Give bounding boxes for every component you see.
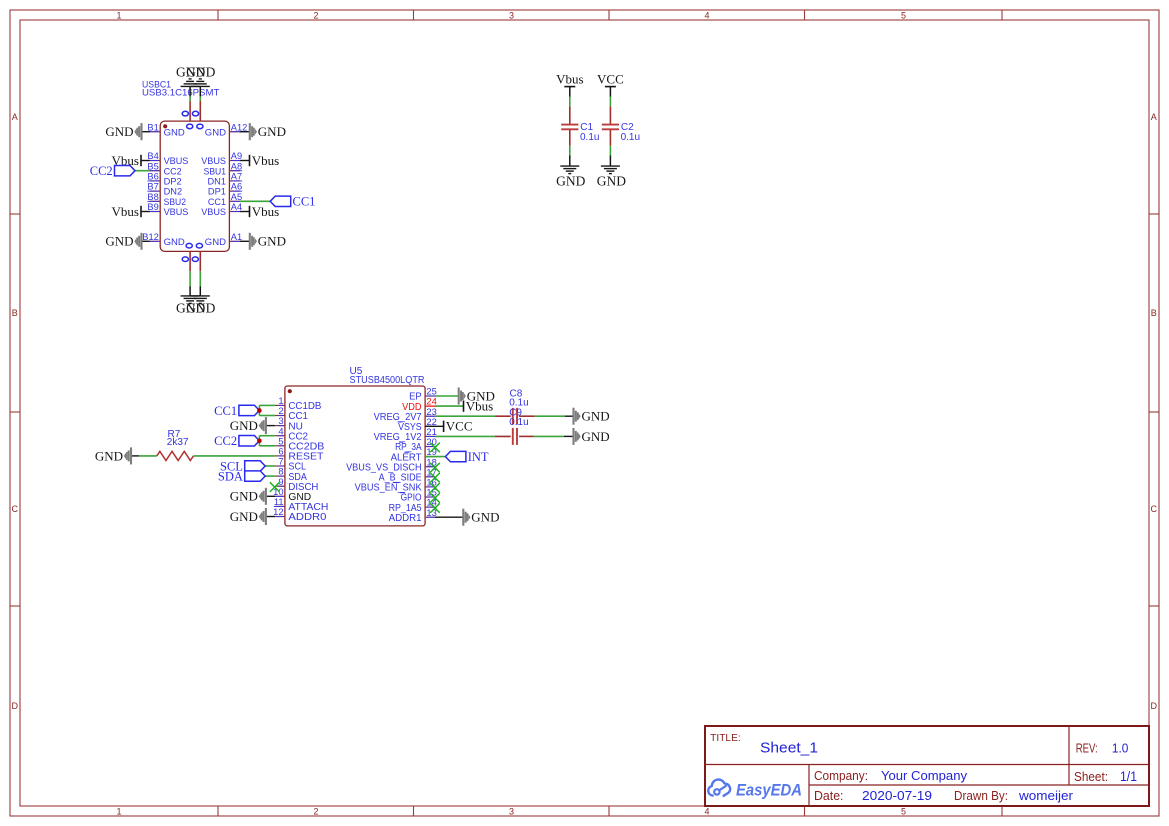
svg-text:Date:: Date: [814,789,844,803]
ground [181,79,200,97]
svg-text:B7: B7 [147,182,158,192]
svg-text:EasyEDA: EasyEDA [736,780,802,799]
USBC1 pin B4 VBUS [147,151,188,167]
svg-text:ADDR0: ADDR0 [288,512,326,523]
net flag GND at U5 pin 12 [230,508,275,525]
junction dot [257,438,262,443]
rev value 1.0 [1112,741,1129,756]
net flag GND at R7 [95,447,139,464]
svg-text:CC2: CC2 [214,434,237,448]
U5 pin 10 GND [273,486,311,503]
svg-text:A: A [1151,112,1157,122]
svg-text:INT: INT [468,450,489,464]
svg-text:A5: A5 [231,192,242,202]
svg-text:GND: GND [597,173,626,188]
USBC1 pin A7 DN1 [208,172,243,188]
svg-text:5: 5 [901,806,906,816]
svg-text:GND: GND [186,65,215,80]
net flag Vbus at B4 [112,153,150,168]
frame row ticks [10,214,1159,606]
net flag INT at U5 pin 19 [425,450,489,464]
wire [259,415,275,417]
svg-text:1: 1 [116,806,121,816]
svg-text:0.1u: 0.1u [509,417,528,428]
no-connect X at U5 pin 16 [430,483,440,493]
net flag CC1 at U5 pins 1-2 [214,404,259,418]
svg-text:B: B [1151,308,1157,318]
no-connect X at U5 pin 17 [430,473,440,483]
svg-text:B6: B6 [147,172,158,182]
no-connect X at U5 pin 15 [430,493,440,503]
USBC1 pin A9 VBUS [201,151,242,167]
title label [710,733,741,744]
wire [199,96,201,101]
svg-text:GND: GND [230,489,258,504]
svg-text:GND: GND [582,409,610,424]
net flag Vbus at B9 [112,204,150,219]
U5 pin 6 RESET [275,446,324,463]
junction dot [257,408,262,413]
wire [259,445,275,447]
svg-text:GND: GND [95,448,123,463]
svg-text:3: 3 [509,10,514,20]
C1 value labels [580,122,599,143]
svg-text:B1: B1 [147,122,158,132]
wire [609,97,611,107]
net flag Vbus at U5 pin 24 [464,399,494,414]
svg-text:Vbus: Vbus [556,72,583,87]
wire [534,435,564,437]
svg-text:GND: GND [556,173,585,188]
USBC1 pin A4 VBUS [201,202,242,218]
U5 pin 13 ADDR1 [389,507,437,524]
svg-text:GND: GND [105,234,133,249]
U5 pin 23 VREG_2V7 [374,406,437,423]
wire [258,436,260,446]
ground [191,286,210,303]
U5 pin 12 ADDR0 [273,506,327,523]
company label [814,769,868,783]
U5 pin 8 SDA [275,466,307,483]
USBC1 pin B12 GND [142,232,185,248]
svg-text:2: 2 [313,806,318,816]
net flag Vbus above C1 [556,72,583,97]
svg-text:A1: A1 [231,232,242,242]
svg-text:GND: GND [582,429,610,444]
resistor R7 [157,451,194,460]
USBC1 shield pin ellipses [182,111,203,261]
U5 pin 11 ATTACH [274,496,329,513]
wire [194,455,275,457]
U5 pin 2 CC1 [275,405,308,422]
USBC1 pin B7 DN2 [147,182,182,198]
svg-text:GND: GND [258,234,286,249]
wire [199,271,201,286]
svg-text:4: 4 [704,10,709,20]
svg-text:GND: GND [258,124,286,139]
ground [181,286,200,303]
svg-text:Sheet_1: Sheet_1 [760,741,818,757]
title block border [705,726,1149,806]
USBC1 pin B1 GND [147,122,184,138]
net flag GND at A12 [240,123,286,140]
capacitor C8 [495,408,535,425]
svg-text:VBUS: VBUS [164,207,189,218]
svg-text:B: B [12,308,18,318]
U5 pin 16 VBUS_EN_SNK [355,477,437,494]
wire [435,395,459,397]
wire [569,146,571,156]
U5 pin 24 VDD [402,396,437,413]
U5 value STUSB4500LQTR [350,375,425,386]
svg-text:1/1: 1/1 [1120,769,1137,784]
net flag VCC at U5 pin 22 [425,419,472,434]
ground [191,79,210,97]
svg-text:REV:: REV: [1076,742,1098,756]
svg-text:Company:: Company: [814,769,868,783]
frame column labels top [116,10,906,20]
U5 pin 5 CC2DB [275,435,325,452]
U5 pin 17 A_B_SIDE [379,466,437,483]
svg-text:GND: GND [230,418,258,433]
frame column ticks [218,10,1002,816]
svg-text:Vbus: Vbus [252,204,279,219]
U5 pin 15 GPIO [401,487,437,504]
U5 pin 25 EP [409,386,437,403]
net flag SCL at U5 pin 7 [220,459,275,473]
drawn by value womeijer [1018,788,1074,803]
svg-text:Sheet:: Sheet: [1074,770,1108,784]
svg-text:2: 2 [313,10,318,20]
wire [139,455,157,457]
svg-text:GND: GND [105,124,133,139]
svg-text:B9: B9 [147,202,158,212]
C2 value labels [621,122,640,143]
U5 pin 18 VBUS_VS_DISCH [346,456,437,473]
net flag Vbus at A9 [240,153,279,168]
svg-text:A8: A8 [231,161,242,171]
wire [569,97,571,107]
svg-text:womeijer: womeijer [1018,788,1074,803]
svg-text:USB3.1C16PSMT: USB3.1C16PSMT [142,88,219,99]
svg-text:B5: B5 [147,161,158,171]
EasyEDA logo [708,780,802,800]
svg-text:1.0: 1.0 [1112,741,1129,756]
wire [435,405,463,407]
U5 pin 3 NU [275,415,303,432]
svg-text:B4: B4 [147,151,158,161]
wire [535,415,565,417]
svg-text:12: 12 [273,506,283,517]
wire [435,435,495,437]
svg-text:SDA: SDA [218,469,243,483]
svg-text:Vbus: Vbus [252,153,279,168]
net flag GND at U5 pin 25 [459,388,495,405]
USBC1 reference designator [142,80,171,90]
svg-text:GND: GND [230,509,258,524]
U5 pin 1 CC1DB [275,395,322,412]
USBC1 pin B8 SBU2 [147,192,186,208]
C9 value labels [509,408,528,429]
wire [189,271,191,286]
USBC1 pin B6 DP2 [147,172,181,188]
svg-text:5: 5 [901,10,906,20]
U5 pin 22 VSYS [398,416,437,433]
svg-text:D: D [12,701,19,711]
svg-text:D: D [1151,701,1158,711]
net flag GND at U5 pin 13 [435,509,499,526]
net flag CC2 at B5 [90,164,150,178]
svg-text:Vbus: Vbus [112,204,139,219]
wire [259,404,275,406]
svg-text:A9: A9 [231,151,242,161]
U5 pin 4 CC2 [275,425,308,442]
USBC1 pin A1 GND [205,232,242,248]
USBC1 top shield pin [199,101,201,121]
svg-text:Your Company: Your Company [881,768,968,783]
svg-text:CC1: CC1 [214,404,237,418]
svg-text:A6: A6 [231,182,242,192]
sheet label [1074,770,1108,784]
USBC1 pin A6 DP1 [208,182,242,198]
U5 overline marks [393,422,410,493]
wire [258,405,260,415]
no-connect X at U5 pin 14 [430,503,440,513]
no-connect X at U5 pin 9 [270,482,280,492]
net flag SDA at U5 pin 8 [218,469,275,483]
net flag GND at A1 [240,233,286,250]
svg-text:B12: B12 [142,232,159,242]
GND net labels top [176,65,216,80]
svg-text:GND: GND [164,127,185,138]
svg-text:B8: B8 [147,192,158,202]
svg-text:ADDR1: ADDR1 [389,513,422,524]
USBC1 pin A5 CC1 [208,192,242,208]
U5 pin 14 RP_1A5 [389,497,437,514]
sheet title Sheet_1 [760,741,818,757]
capacitor C2 [602,106,619,145]
U5 pin 9 DISCH [275,476,319,493]
GND net labels bottom [176,301,216,316]
svg-text:4: 4 [704,806,709,816]
svg-text:GND: GND [471,510,499,525]
U5 pin 20 RP_3A [395,436,437,453]
company value Your Company [881,768,968,783]
svg-text:A7: A7 [231,172,242,182]
net flag GND at B1 [105,123,149,140]
USBC1 pin A8 SBU1 [204,161,243,177]
USBC1 value USB3.1C16PSMT [142,88,219,99]
svg-text:VBUS: VBUS [201,207,226,218]
ground [556,156,585,189]
wire [435,415,495,417]
svg-text:CC2: CC2 [90,164,113,178]
title block dividers [705,726,1149,806]
frame column labels bottom [116,806,906,816]
no-connect X at U5 pin 18 [430,463,440,473]
drawn by label [954,789,1008,803]
capacitor C1 [561,106,578,145]
U5 pin-1 marker [288,389,292,393]
USBC1 pin B9 VBUS [147,202,188,218]
U5 pin 21 VREG_1V2 [374,426,437,443]
USBC1 pin A12 GND [205,122,248,138]
net flag CC2 at U5 pins 4-5 [214,434,259,448]
sheet value 1/1 [1120,769,1137,784]
net flag VCC above C2 [597,72,624,97]
USBC1 top shield pin [189,101,191,121]
net flag GND at U5 pin 10 [230,488,275,505]
svg-text:0.1u: 0.1u [580,132,599,143]
svg-text:3: 3 [509,806,514,816]
svg-text:Drawn By:: Drawn By: [954,789,1008,803]
svg-text:2020-07-19: 2020-07-19 [862,788,932,803]
net flag GND at C8 [565,408,610,425]
date value 2020-07-19 [862,788,932,803]
svg-text:CC1: CC1 [293,195,316,209]
net flag GND at U5 pin 3 [230,417,275,434]
frame row labels right [1151,112,1158,711]
no-connect X at U5 pin 20 [430,443,440,453]
IC U5 body [285,386,425,526]
connector USBC1 body [160,121,229,251]
svg-text:C: C [12,504,19,514]
USBC1 pin-1 marker [163,124,167,128]
svg-text:VCC: VCC [597,72,624,87]
C8 value labels [509,388,528,408]
svg-text:TITLE:: TITLE: [710,733,741,744]
wire [259,435,275,437]
svg-text:A: A [12,112,18,122]
USBC1 bottom shield pin [189,251,191,271]
svg-text:GND: GND [164,237,185,248]
date label [814,789,844,803]
wire [609,146,611,156]
svg-text:VCC: VCC [446,419,473,434]
net flag GND at B12 [105,233,149,250]
capacitor C9 [495,428,534,445]
rev label [1076,742,1098,756]
svg-text:1: 1 [116,10,121,20]
svg-text:STUSB4500LQTR: STUSB4500LQTR [350,375,425,386]
U5 pin 7 SCL [275,456,306,473]
svg-text:Vbus: Vbus [466,399,493,414]
U5 reference designator [350,366,363,377]
svg-text:0.1u: 0.1u [621,132,640,143]
net flag Vbus at A4 [240,204,279,219]
svg-text:A4: A4 [231,202,242,212]
USBC1 bottom shield pin [199,251,201,271]
svg-text:GND: GND [186,301,215,316]
svg-text:2k37: 2k37 [167,437,189,448]
USBC1 pin B5 CC2 [147,161,181,177]
R7 labels [167,429,189,448]
svg-text:GND: GND [205,237,226,248]
svg-text:C: C [1151,504,1158,514]
wire [189,96,191,101]
net flag CC1 at A5 [240,195,316,209]
ground [597,156,626,189]
net flag GND at C9 [564,428,610,445]
frame row labels left [12,112,19,711]
svg-text:GND: GND [205,127,226,138]
svg-text:A12: A12 [231,122,248,132]
U5 pin 19 ALERT [391,446,437,463]
